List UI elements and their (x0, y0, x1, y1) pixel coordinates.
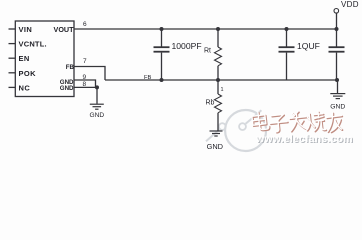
junction Rt top (216, 27, 220, 31)
发 (289, 111, 307, 131)
svg-text:GND: GND (89, 112, 104, 119)
pin stub POK (9, 72, 16, 74)
ground under IC (90, 104, 104, 109)
watermark chinese text 电子发烧友 (252, 112, 344, 134)
capacitor C1 1000PF (161, 29, 163, 47)
junction Rt bottom (216, 78, 220, 82)
svg-text:FB: FB (144, 75, 152, 81)
resistor Rt (215, 29, 222, 80)
svg-text:6: 6 (83, 21, 87, 28)
svg-text:FB: FB (66, 64, 75, 71)
子 (270, 115, 289, 133)
IC U1 body (15, 21, 74, 97)
svg-text:1000PF: 1000PF (172, 41, 202, 51)
电 (251, 111, 269, 131)
svg-text:Rb: Rb (206, 99, 215, 106)
svg-text:1: 1 (221, 87, 224, 93)
svg-text:VOUT: VOUT (54, 25, 75, 34)
wire FB pin to rail (74, 67, 105, 81)
pin stub VCNTL (9, 43, 16, 45)
svg-text:VIN: VIN (19, 25, 33, 34)
svg-text:www.elecfans.com: www.elecfans.com (255, 133, 353, 145)
友 (326, 112, 344, 132)
svg-text:VCNTL.: VCNTL. (19, 40, 47, 49)
watermark logo circle (206, 110, 266, 151)
发 (290, 112, 308, 132)
烧 (306, 112, 326, 132)
pin stub EN (9, 57, 16, 59)
ground under Rb (210, 131, 223, 136)
子 (269, 114, 288, 132)
wire FB rail (105, 79, 338, 81)
svg-text:EN: EN (19, 54, 30, 63)
svg-text:VDD: VDD (341, 0, 359, 9)
pin stub VIN (9, 28, 16, 30)
svg-text:POK: POK (19, 69, 37, 78)
junction C2 top (285, 27, 289, 31)
svg-text:GND: GND (60, 85, 74, 92)
电 (252, 112, 270, 132)
svg-text:NC: NC (19, 83, 31, 92)
svg-text:GND: GND (207, 142, 223, 151)
pin stub NC (9, 86, 16, 88)
烧 (305, 111, 325, 131)
wire to right ground (337, 80, 339, 93)
svg-text:GND: GND (330, 104, 345, 111)
junction C1 top (160, 27, 164, 31)
resistor Rb (215, 80, 222, 131)
capacitor C3 (329, 46, 345, 48)
wire VOUT top rail (74, 28, 337, 30)
wire GND pin 9 (74, 80, 96, 87)
svg-text:7: 7 (83, 58, 87, 65)
junction C1 bottom (160, 78, 164, 82)
友 (326, 113, 344, 133)
wire down to IC ground (96, 87, 98, 103)
wire GND pin 8 (74, 86, 98, 88)
power VDD (334, 9, 339, 14)
svg-text:1QUF: 1QUF (297, 41, 320, 51)
junction VDD / rail (335, 27, 339, 31)
junction pin8/9 (95, 85, 99, 89)
ground right (330, 94, 345, 99)
wire VDD down (336, 13, 338, 47)
capacitor C2 1QUF (286, 29, 288, 47)
svg-text:Rt: Rt (204, 47, 211, 54)
junction C3 bottom (335, 78, 339, 82)
